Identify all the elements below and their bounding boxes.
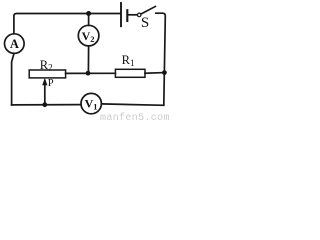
wire bottom rail left <box>12 104 81 106</box>
switch S pivot <box>137 13 141 17</box>
wiper P arrowhead <box>42 78 47 85</box>
svg-text:manfen5.com: manfen5.com <box>100 112 170 122</box>
wire left rail <box>12 53 14 105</box>
voltmeter V1 <box>81 93 101 113</box>
svg-text:S: S <box>141 15 149 31</box>
svg-text:R1: R1 <box>122 53 135 68</box>
wire bottom rail right <box>102 104 164 105</box>
ammeter A <box>5 34 25 54</box>
wire top rail <box>14 14 120 34</box>
wire right rail <box>156 13 166 105</box>
junction dot middle (V2 to R1/R2 node) <box>86 71 91 76</box>
svg-text:V2: V2 <box>82 29 95 44</box>
svg-text:P: P <box>48 78 54 89</box>
svg-text:A: A <box>10 37 19 51</box>
voltmeter V2 <box>78 25 99 46</box>
wiper P stem <box>44 81 46 105</box>
switch S blade <box>141 6 155 14</box>
wire V2 top lead <box>88 14 90 26</box>
wire R1 to right rail <box>145 72 165 75</box>
resistor R1 body <box>115 69 145 77</box>
junction dot top (V2 tap) <box>86 11 91 16</box>
wire R2 to R1 <box>66 72 116 74</box>
junction dot right rail <box>162 70 167 75</box>
svg-text:R2: R2 <box>40 58 53 73</box>
wire V2 bottom lead <box>87 46 89 73</box>
junction dot bottom (P to bottom rail) <box>42 102 47 107</box>
svg-text:V1: V1 <box>85 97 98 112</box>
battery short plate <box>126 10 128 21</box>
battery long plate <box>120 3 122 26</box>
wire battery to switch <box>128 14 137 16</box>
resistor R2 body <box>29 70 65 78</box>
